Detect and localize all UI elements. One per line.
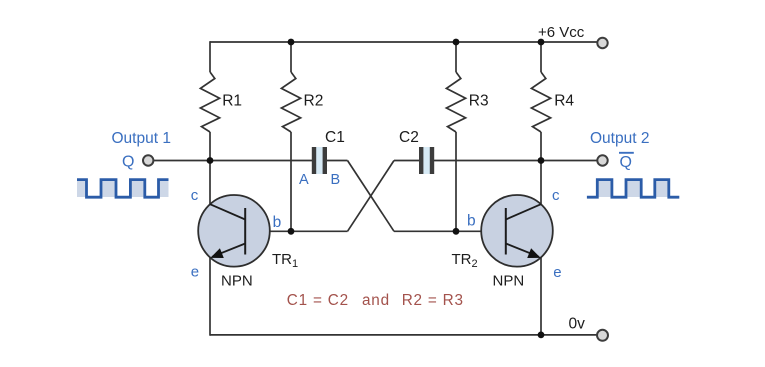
wire R2 bottom lead to TR1 base node <box>290 132 292 231</box>
wire top rail Vcc <box>210 41 597 43</box>
wire R1 top lead <box>209 41 211 72</box>
wire R3 bottom lead to TR2 base node <box>455 132 457 231</box>
svg-text:Q: Q <box>122 154 134 171</box>
wire R1 bottom lead to TR1 collector <box>209 132 211 205</box>
terminal +6 Vcc <box>597 38 607 48</box>
svg-text:e: e <box>553 264 561 281</box>
wire TR1 emitter to bottom rail <box>209 257 211 336</box>
wire C2 left lead <box>394 160 421 162</box>
svg-text:c: c <box>191 187 199 204</box>
junction TR2 emitter bottom <box>538 332 545 339</box>
svg-text:Q: Q <box>620 154 632 171</box>
svg-text:b: b <box>273 214 282 231</box>
svg-text:and: and <box>362 292 390 309</box>
terminal 0v <box>597 330 608 341</box>
resistor R2 <box>281 72 300 132</box>
svg-text:B: B <box>331 172 341 188</box>
junction R2 top <box>288 39 295 46</box>
capacitor C1 <box>312 129 345 174</box>
junction R3 top <box>453 39 460 46</box>
svg-text:C1 = C2: C1 = C2 <box>287 292 349 309</box>
terminal Q <box>143 155 153 165</box>
svg-text:+6 Vcc: +6 Vcc <box>538 24 585 41</box>
svg-text:Output 2: Output 2 <box>590 130 649 147</box>
wire C2 to output Q2 line <box>434 160 598 162</box>
terminal Q2 <box>597 155 607 165</box>
wire R4 vertical <box>540 42 542 72</box>
wire diagonal C2A to TR1 base <box>348 161 395 232</box>
svg-text:C2: C2 <box>399 129 419 146</box>
svg-text:e: e <box>191 264 199 281</box>
wire R4 bottom lead to TR2 collector <box>540 132 542 205</box>
waveform output 2 <box>587 180 679 198</box>
resistor R3 <box>446 72 465 132</box>
svg-text:NPN: NPN <box>221 273 253 290</box>
transistor TR2 <box>481 195 553 267</box>
junction Q node <box>207 157 214 164</box>
svg-text:R4: R4 <box>554 93 574 110</box>
resistor R1 <box>200 72 219 132</box>
svg-text:R2 = R3: R2 = R3 <box>402 292 464 309</box>
wire bottom rail 0v <box>210 334 597 336</box>
svg-text:A: A <box>299 172 309 188</box>
svg-text:Output 1: Output 1 <box>112 130 171 147</box>
junction TR2 base <box>453 228 460 235</box>
junction Q2 node <box>538 157 545 164</box>
svg-text:b: b <box>467 212 476 229</box>
wire TR2 emitter to bottom rail <box>540 257 542 336</box>
svg-text:R3: R3 <box>469 93 489 110</box>
wire R3 vertical <box>455 42 457 72</box>
capacitor C2 <box>399 129 434 174</box>
waveform output 1 <box>77 180 169 198</box>
transistor TR1 <box>198 195 270 267</box>
wire C1 to diagonal <box>327 160 348 162</box>
junction R4 top <box>538 39 545 46</box>
svg-text:NPN: NPN <box>493 273 525 290</box>
wire diagonal C1B to TR2 base <box>348 161 395 232</box>
junction TR1 base <box>288 228 295 235</box>
svg-text:0v: 0v <box>569 316 586 333</box>
wire TR1 base line <box>245 230 348 232</box>
svg-text:R2: R2 <box>304 93 324 110</box>
svg-text:R1: R1 <box>222 93 242 110</box>
svg-text:c: c <box>552 187 560 204</box>
wire R2 vertical <box>290 42 292 72</box>
svg-text:C1: C1 <box>325 129 345 146</box>
wire output Q line <box>154 160 313 162</box>
resistor R4 <box>531 72 550 132</box>
wire TR2 base line <box>394 230 506 232</box>
